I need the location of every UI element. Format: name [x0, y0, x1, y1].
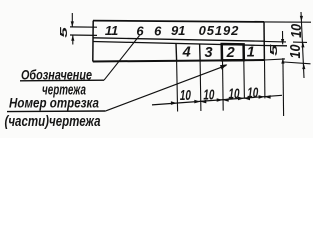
svg-text:6: 6 [136, 24, 144, 39]
svg-text:1: 1 [111, 23, 118, 38]
svg-text:5: 5 [58, 27, 70, 38]
svg-text:10: 10 [289, 24, 305, 38]
svg-text:(части)чертежа: (части)чертежа [5, 114, 101, 130]
svg-text:91: 91 [171, 23, 185, 38]
svg-text:10: 10 [288, 45, 304, 59]
svg-text:10: 10 [247, 86, 258, 102]
svg-text:Обозначение: Обозначение [21, 67, 92, 83]
svg-text:Номер отрезка: Номер отрезка [9, 95, 99, 111]
svg-text:05192: 05192 [199, 23, 240, 38]
svg-text:5: 5 [268, 43, 280, 56]
svg-text:1: 1 [247, 44, 255, 60]
svg-text:10: 10 [229, 87, 240, 103]
svg-text:6: 6 [154, 23, 162, 38]
svg-text:10: 10 [203, 87, 214, 103]
svg-text:10: 10 [180, 88, 191, 104]
svg-text:4: 4 [182, 45, 191, 61]
svg-text:3: 3 [205, 45, 213, 61]
svg-text:2: 2 [226, 45, 235, 61]
